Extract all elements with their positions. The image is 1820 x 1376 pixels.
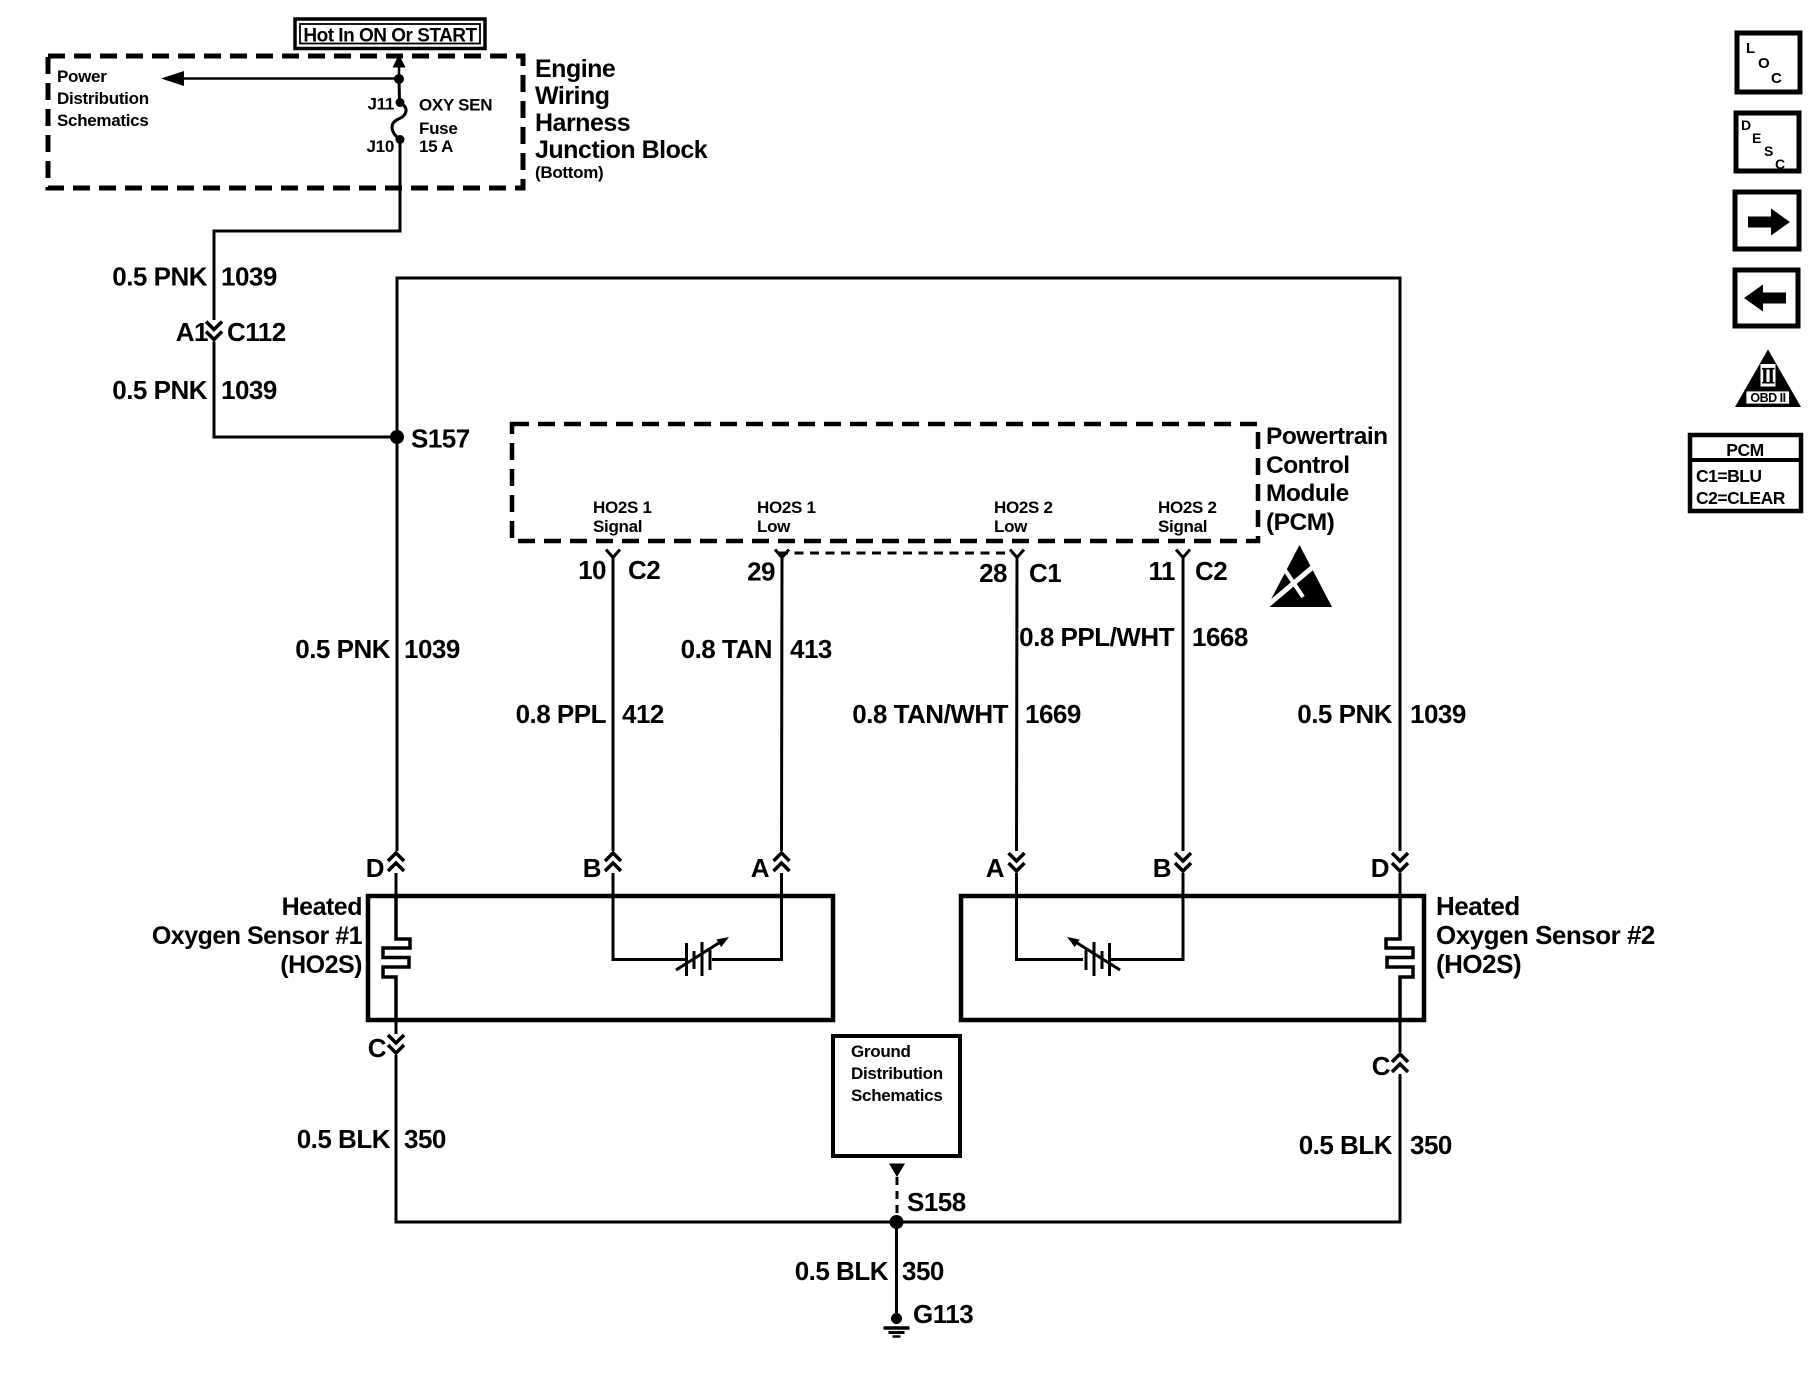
svg-text:J11: J11 [367, 95, 394, 114]
node Heated Oxygen Sensor #2 label [1436, 891, 1655, 979]
pin 28 C1 of PCM [979, 550, 1061, 589]
svg-text:Distribution: Distribution [851, 1064, 943, 1083]
svg-text:E: E [1752, 130, 1761, 146]
svg-text:HO2S 2: HO2S 2 [994, 498, 1053, 517]
svg-text:Oxygen Sensor #1: Oxygen Sensor #1 [152, 922, 363, 950]
svg-text:B: B [583, 853, 601, 883]
svg-text:(Bottom): (Bottom) [535, 163, 603, 182]
fuse OXY SEN 15 A [392, 96, 492, 157]
node forward navigation icon [1735, 192, 1799, 249]
svg-text:Schematics: Schematics [57, 111, 149, 130]
node PCM label HO2S 1 Signal [593, 498, 652, 536]
svg-text:Harness: Harness [535, 109, 630, 137]
connector C112 pin A1 (in-line connector chevrons) [176, 317, 286, 347]
svg-text:1039: 1039 [221, 375, 277, 405]
node back navigation icon [1735, 270, 1798, 326]
svg-text:Module: Module [1266, 480, 1349, 507]
pin C of HO2S#1 (chevrons down) [368, 1020, 404, 1063]
transducer U1 Heated Oxygen Sensor #1 box [368, 896, 833, 1020]
ground G113 [884, 1299, 974, 1337]
svg-text:Wiring: Wiring [535, 82, 610, 110]
pin B of HO2S#2 [1153, 853, 1191, 883]
node LOC navigation icon [1737, 33, 1800, 92]
node Engine Wiring Harness Junction Block label [535, 55, 708, 182]
pin D of HO2S#1 (in-line connector chevrons up) [366, 853, 404, 883]
wire arrow up to hot feed [393, 55, 406, 80]
svg-text:D: D [1371, 853, 1389, 883]
pin A of HO2S#1 [751, 853, 790, 883]
pin C of HO2S#2 (chevrons up) [1372, 1020, 1408, 1081]
svg-text:0.8 PPL: 0.8 PPL [516, 699, 607, 729]
svg-text:C: C [1372, 1051, 1391, 1081]
svg-text:HO2S 1: HO2S 1 [593, 498, 652, 517]
svg-text:11: 11 [1149, 556, 1176, 586]
svg-text:(PCM): (PCM) [1266, 509, 1334, 536]
node PCM label HO2S 2 Low [994, 498, 1053, 536]
svg-text:S158: S158 [907, 1187, 966, 1217]
svg-text:Heated: Heated [1436, 891, 1520, 921]
svg-text:PCM: PCM [1726, 440, 1763, 460]
svg-text:C112: C112 [227, 317, 286, 347]
svg-text:0.5 BLK: 0.5 BLK [297, 1124, 391, 1154]
svg-text:350: 350 [1410, 1130, 1452, 1160]
op-amp PCM (Powertrain Control Module, dashed boundary) [512, 424, 1258, 541]
wire label 0.5 PNK 1039 (left drop) [295, 634, 460, 664]
svg-text:Control: Control [1266, 452, 1350, 479]
svg-text:(HO2S): (HO2S) [280, 951, 362, 979]
svg-text:Schematics: Schematics [851, 1086, 943, 1105]
wire label 0.8 PPL 412 [516, 699, 664, 729]
node Power Distribution Schematics reference [57, 67, 149, 130]
svg-text:Heated: Heated [282, 893, 362, 921]
svg-text:Junction Block: Junction Block [535, 136, 708, 164]
svg-text:0.8 TAN/WHT: 0.8 TAN/WHT [852, 699, 1008, 729]
svg-text:1039: 1039 [404, 634, 460, 664]
wire stubs from connectors into sensor boxes [396, 873, 1400, 896]
svg-text:1039: 1039 [221, 262, 277, 292]
pin B of HO2S#1 [583, 853, 621, 883]
wire 0.5 BLK 350 from HO2S#1 pin C to S158 [396, 1055, 896, 1222]
pin J11 [367, 95, 404, 114]
svg-text:Low: Low [994, 517, 1028, 536]
svg-text:0.5 PNK: 0.5 PNK [112, 262, 207, 292]
svg-text:A1: A1 [176, 317, 208, 347]
svg-text:Engine: Engine [535, 55, 616, 83]
svg-text:C1=BLU: C1=BLU [1696, 466, 1762, 486]
wire arrow from ground distribution reference [889, 1164, 905, 1217]
node PCM connector color legend [1690, 435, 1801, 511]
node Powertrain Control Module label [1266, 423, 1388, 536]
svg-text:Low: Low [757, 517, 791, 536]
node Ground Distribution Schematics reference box [833, 1036, 960, 1156]
node PCM connector C1 dashed link between pin 29 and pin 28 [779, 552, 1012, 555]
capacitor-style variable sense element of HO2S#1 [676, 937, 729, 976]
svg-text:C1: C1 [1029, 558, 1061, 588]
node splice S157 [390, 424, 470, 454]
wire 0.8 TAN/WHT 1669: PCM pin 28 to HO2S#2 pin A [1015, 558, 1019, 852]
capacitor-style variable sense element of HO2S#2 [1067, 937, 1120, 976]
wire 0.5 PNK 1039 from fuse J10 down and left [214, 142, 400, 320]
wire 0.8 PPL/WHT 1668: PCM pin 11 to HO2S#2 pin B [1182, 558, 1185, 852]
svg-text:C: C [368, 1033, 387, 1063]
svg-text:C: C [1771, 70, 1782, 87]
resistor heater element of HO2S#1 [383, 896, 410, 1020]
wire sensing element leads HO2S#2 [1017, 896, 1184, 960]
svg-text:Power: Power [57, 67, 107, 86]
wire label 0.5 BLK 350 (center) [795, 1256, 944, 1286]
transducer U2 Heated Oxygen Sensor #2 box [961, 896, 1424, 1020]
wire label 0.5 PNK 1039 (lower) [112, 375, 277, 405]
svg-text:A: A [751, 853, 770, 883]
wire 0.8 TAN 413: PCM pin 29 to HO2S#1 pin A [780, 558, 784, 852]
svg-text:412: 412 [622, 699, 664, 729]
wire sensing element leads HO2S#1 [613, 896, 782, 960]
wire label 0.5 PNK 1039 (right drop) [1297, 699, 1466, 729]
node Heated Oxygen Sensor #1 label [152, 893, 363, 979]
pin 10 C2 of PCM [578, 550, 660, 586]
svg-text:Hot In ON Or START: Hot In ON Or START [303, 26, 477, 47]
svg-text:G113: G113 [913, 1299, 973, 1329]
node ESD sensitivity symbol [1262, 545, 1332, 610]
svg-text:10: 10 [578, 555, 606, 585]
svg-text:0.5 PNK: 0.5 PNK [112, 375, 207, 405]
svg-text:0.5 PNK: 0.5 PNK [1297, 699, 1392, 729]
wire 0.5 PNK 1039 feed: S157 up, across top, down right side to HO2S#2 pin D [397, 278, 1400, 851]
wire label 0.5 BLK 350 (left) [297, 1124, 446, 1154]
wire 0.8 PPL 412: PCM pin 10 to HO2S#1 pin B [612, 558, 615, 852]
svg-text:C2: C2 [628, 555, 660, 585]
svg-text:B: B [1153, 853, 1171, 883]
svg-text:(HO2S): (HO2S) [1436, 949, 1521, 979]
svg-text:Ground: Ground [851, 1042, 911, 1061]
svg-text:29: 29 [747, 557, 775, 587]
node splice S158 [890, 1187, 966, 1229]
svg-text:C2=CLEAR: C2=CLEAR [1696, 488, 1786, 508]
svg-text:0.5 BLK: 0.5 BLK [1299, 1130, 1393, 1160]
svg-text:Oxygen Sensor #2: Oxygen Sensor #2 [1436, 920, 1655, 950]
wire 0.5 BLK 350 from HO2S#2 pin C to S158 [896, 1074, 1400, 1222]
svg-text:15 A: 15 A [419, 137, 453, 156]
svg-text:350: 350 [902, 1256, 944, 1286]
svg-text:C2: C2 [1195, 556, 1227, 586]
svg-text:L: L [1746, 40, 1755, 57]
svg-text:J10: J10 [367, 137, 394, 156]
svg-text:OXY SEN: OXY SEN [419, 96, 492, 115]
node junction dot at fuse top feed [394, 74, 404, 84]
svg-text:C: C [1775, 156, 1785, 172]
svg-text:Signal: Signal [1158, 517, 1207, 536]
svg-text:0.5 PNK: 0.5 PNK [295, 634, 390, 664]
resistor heater element of HO2S#2 [1386, 896, 1413, 1020]
wire 0.5 PNK 1039 from S157 down to HO2S#1 pin D [396, 437, 399, 851]
wire label 0.8 TAN 413 [681, 634, 832, 664]
svg-text:1669: 1669 [1025, 699, 1081, 729]
svg-text:O: O [1758, 55, 1770, 72]
wire 0.5 BLK 350 from S158 to G113 [895, 1222, 898, 1313]
svg-text:A: A [986, 853, 1005, 883]
svg-text:1668: 1668 [1192, 622, 1248, 652]
svg-text:1039: 1039 [1410, 699, 1466, 729]
pin 11 C2 of PCM [1149, 550, 1228, 587]
svg-text:413: 413 [790, 634, 832, 664]
svg-text:28: 28 [979, 558, 1007, 588]
svg-text:0.8 PPL/WHT: 0.8 PPL/WHT [1019, 622, 1174, 652]
wire label 0.8 PPL/WHT 1668 [1019, 622, 1248, 652]
junction block (Engine Wiring Harness Junction Block, dashed boundary) [48, 56, 523, 188]
svg-text:D: D [366, 853, 384, 883]
svg-text:350: 350 [404, 1124, 446, 1154]
svg-text:S157: S157 [411, 424, 470, 454]
wire label 0.5 PNK 1039 (upper) [112, 262, 277, 292]
pin A of HO2S#2 (chevrons down) [986, 853, 1025, 883]
svg-text:Signal: Signal [593, 517, 642, 536]
svg-text:Distribution: Distribution [57, 89, 149, 108]
pin J10 [367, 135, 405, 156]
node DESC navigation icon [1736, 113, 1799, 172]
svg-text:0.5 BLK: 0.5 BLK [795, 1256, 889, 1286]
pin D of HO2S#2 [1371, 853, 1408, 883]
wire from feed dot to J11 [398, 79, 402, 101]
pin 29 of PCM [747, 550, 789, 587]
node OBD II symbol [1735, 350, 1801, 408]
svg-text:D: D [1741, 117, 1751, 133]
node Hot In ON Or START label box [295, 19, 485, 49]
svg-text:0.8 TAN: 0.8 TAN [681, 634, 772, 664]
wire label 0.8 TAN/WHT 1669 [852, 699, 1081, 729]
wire 0.5 PNK 1039 from C112 to S157 [214, 342, 397, 438]
svg-text:OBD II: OBD II [1750, 391, 1785, 405]
svg-text:HO2S 1: HO2S 1 [757, 498, 816, 517]
node PCM label HO2S 2 Signal [1158, 498, 1217, 536]
node PCM label HO2S 1 Low [757, 498, 816, 536]
svg-text:HO2S 2: HO2S 2 [1158, 498, 1217, 517]
wire arrow to power distribution [161, 71, 399, 86]
svg-text:Fuse: Fuse [419, 119, 457, 138]
svg-text:Powertrain: Powertrain [1266, 423, 1388, 450]
wire label 0.5 BLK 350 (right) [1299, 1130, 1452, 1160]
svg-text:S: S [1764, 143, 1773, 159]
